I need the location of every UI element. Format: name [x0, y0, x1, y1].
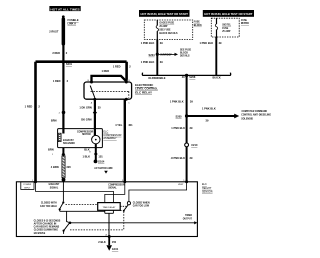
internal wire switch1 to timer leg: [60, 210, 105, 212]
wire BLK 151 motor to ground: [83, 144, 104, 160]
svg-text:GAGES FUSE: GAGES FUSE: [159, 22, 174, 25]
svg-text:1 RED: 1 RED: [113, 65, 121, 69]
fuse box 2 SIG/TEL FUSE: [211, 18, 239, 37]
label ELC compressor assembly: [103, 131, 121, 141]
fuse box 1 GAGES FUSE: [144, 20, 192, 39]
svg-text:3: 3: [122, 180, 123, 182]
svg-text:ACTUATOR ARM: ACTUATOR ARM: [94, 167, 112, 170]
svg-text:HOT IN RUN, BULB TEST OR START: HOT IN RUN, BULB TEST OR START: [141, 12, 189, 16]
svg-text:25 AMP: 25 AMP: [222, 30, 231, 33]
svg-text:ASSEMBLY: ASSEMBLY: [103, 137, 117, 140]
svg-text:OUTPUT: OUTPUT: [183, 219, 193, 221]
svg-text:SUNROOF: SUNROOF: [160, 55, 172, 57]
svg-text:CLOSED ELIMINATING: CLOSED ELIMINATING: [34, 229, 59, 232]
wire 1 RED 2 to relay pin D: [113, 62, 131, 82]
svg-text:BLOCK DETAILS: BLOCK DETAILS: [159, 32, 178, 35]
svg-text:1 RED: 1 RED: [25, 105, 33, 109]
svg-text:COMPRESSOR: COMPRESSOR: [77, 131, 94, 133]
fusible link A: [49, 15, 79, 45]
svg-text:1 RED: 1 RED: [53, 79, 61, 83]
terminal circle on sensor: [62, 178, 66, 182]
svg-text:FUSE: FUSE: [241, 20, 248, 22]
svg-text:SIGNAL: SIGNAL: [50, 186, 59, 189]
wire 1 DK GRN 35 relay A to motor: [79, 99, 101, 135]
svg-text:G104: G104: [98, 160, 105, 164]
svg-text:1 DK GRN: 1 DK GRN: [79, 106, 92, 110]
svg-text:SEE FUSE: SEE FUSE: [180, 50, 192, 52]
svg-text:401: 401: [128, 123, 133, 127]
internal wire exhaust terminal to switch 1: [62, 182, 64, 202]
label closed when car too low: [133, 202, 150, 207]
wire BRN 1 below compressor: [48, 148, 65, 157]
timer box time delay: [98, 203, 121, 211]
svg-text:AFTER CHANGE IN: AFTER CHANGE IN: [34, 222, 57, 225]
svg-text:SIG/TEL: SIG/TEL: [222, 25, 231, 27]
svg-text:EXHAUST: EXHAUST: [63, 139, 74, 142]
label electronic level control relay: [135, 83, 158, 94]
svg-text:20 AMP: 20 AMP: [159, 25, 168, 28]
svg-text:HEIGHT: HEIGHT: [202, 187, 212, 190]
svg-text:SOLENOID: SOLENOID: [241, 118, 253, 120]
ground pin A and wire 2 BLK 150: [98, 234, 116, 246]
svg-text:G101: G101: [112, 247, 119, 251]
wire 1 PNK BLK 39 from sig/tel fuse: [199, 37, 222, 75]
dashed links timer to switch 3: [120, 206, 126, 210]
internal rail vent pin to switch: [129, 182, 187, 202]
compressor assembly box: [58, 129, 103, 148]
svg-text:S204: S204: [149, 53, 156, 57]
svg-text:LINK A: LINK A: [68, 22, 77, 26]
svg-text:ELC: ELC: [202, 183, 207, 186]
svg-text:CLOSES 8-15 SECONDS: CLOSES 8-15 SECONDS: [34, 220, 61, 222]
svg-text:EXHAUST: EXHAUST: [49, 183, 60, 186]
op relay U1 electronic level control relay box: [84, 80, 132, 104]
label actuator arm: [94, 167, 112, 174]
wire 1 RED 2 below S201: [53, 62, 69, 112]
node S201: [62, 60, 73, 66]
svg-text:CLOSED WITH: CLOSED WITH: [41, 203, 57, 205]
svg-text:CONTROL ANTI-DIESELING: CONTROL ANTI-DIESELING: [241, 114, 271, 117]
svg-text:S205: S205: [176, 114, 183, 118]
exhaust solenoid coil: [58, 133, 75, 145]
wire 1 RED relay jumper B to D: [92, 69, 127, 82]
svg-text:1 PNK BLK: 1 PNK BLK: [170, 99, 184, 103]
svg-text:POWER: POWER: [23, 184, 31, 186]
svg-text:2 RED: 2 RED: [52, 51, 60, 55]
height sensor box: [16, 180, 197, 237]
svg-text:ELECTRONIC: ELECTRONIC: [135, 83, 153, 87]
svg-text:SEE FUSE: SEE FUSE: [159, 30, 171, 32]
svg-text:1 PNK BLK: 1 PNK BLK: [202, 107, 216, 111]
model split bus: [142, 73, 230, 81]
label closed with car too high: [40, 203, 57, 208]
svg-text:CLOSED WHEN: CLOSED WHEN: [133, 202, 150, 204]
svg-text:CAR TOO LOW: CAR TOO LOW: [133, 205, 150, 208]
svg-text:EXCESSIVE: EXCESSIVE: [34, 233, 46, 235]
svg-text:HOT IN RUN, BULB TEST OR START: HOT IN RUN, BULB TEST OR START: [204, 12, 252, 16]
power input compartment: [21, 182, 34, 190]
wire label .8 PNK BLK 39 low: [171, 156, 193, 160]
connector on red/brn wire: [59, 111, 66, 115]
wire 1 PNK 39 from gages fuse: [141, 39, 164, 75]
svg-text:151: 151: [98, 154, 103, 158]
svg-text:VENT: VENT: [178, 184, 184, 186]
svg-text:1 BLK: 1 BLK: [83, 154, 91, 158]
connector C210: [185, 143, 198, 147]
svg-text:BRN: BRN: [51, 118, 57, 122]
svg-text:1 RED: 1 RED: [102, 69, 110, 73]
svg-text:BLOCK: BLOCK: [241, 23, 249, 25]
svg-text:DK GRN: DK GRN: [81, 118, 91, 122]
svg-text:BUICK: BUICK: [213, 75, 221, 79]
switch 1 closed with car too high: [59, 201, 65, 211]
svg-text:FUSIBLE: FUSIBLE: [68, 18, 79, 22]
svg-text:CAR HEIGHT. REMAINS: CAR HEIGHT. REMAINS: [34, 226, 60, 229]
svg-text:MOTOR: MOTOR: [82, 134, 91, 136]
svg-text:COMPUTER COMMAND: COMPUTER COMMAND: [242, 110, 268, 113]
svg-text:4 YEL: 4 YEL: [115, 123, 123, 127]
svg-text:1 PNK BLK: 1 PNK BLK: [141, 41, 155, 45]
svg-text:LEVEL CONTROL: LEVEL CONTROL: [135, 87, 158, 91]
internal rail compressor signal to timer: [105, 182, 125, 203]
label closes 8-15 seconds block: [34, 220, 61, 235]
motor M symbol: [92, 135, 100, 143]
timer output line to edge: [70, 221, 197, 224]
svg-text:FUSE: FUSE: [222, 28, 229, 30]
svg-text:1 PNK BLK: 1 PNK BLK: [199, 41, 213, 45]
internal rail power to timer: [36, 182, 114, 203]
switch 2 time delay contact: [63, 211, 72, 234]
svg-text:150: 150: [112, 240, 117, 244]
label timer output: [183, 215, 193, 220]
svg-text:C210: C210: [191, 143, 198, 147]
wire fusible link to S201 (2 RED): [52, 45, 67, 62]
air line coil to height sensor: [51, 156, 71, 178]
dashed link switch2 to ground drop: [70, 229, 124, 231]
node S205: [176, 114, 189, 118]
svg-text:5: 5: [183, 180, 184, 182]
wire bus 1 RED horizontal: [36, 60, 127, 63]
svg-text:.8 PNK BLK: .8 PNK BLK: [171, 156, 186, 160]
svg-text:SIGNAL: SIGNAL: [108, 187, 117, 190]
svg-text:BRN: BRN: [48, 148, 54, 152]
svg-text:S208: S208: [189, 75, 196, 79]
svg-text:BLOCK: BLOCK: [180, 53, 188, 55]
switch 3 closed when car too low: [123, 202, 131, 212]
wire label 1 PNK BLK 39 mid: [171, 126, 193, 130]
svg-text:DETAILS: DETAILS: [180, 54, 190, 57]
svg-text:TIME DELAY: TIME DELAY: [102, 206, 115, 209]
svg-text:COMPRESSOR: COMPRESSOR: [108, 184, 125, 186]
power label HOT IN RUN BULB TEST OR START (left): [139, 10, 190, 17]
wire 4 YEL 401 relay C to sensor: [115, 99, 133, 182]
label computer command control solenoid: [241, 110, 271, 120]
node S204 sunroof tap: [149, 53, 178, 57]
svg-text:SENSOR: SENSOR: [202, 191, 213, 194]
wire 1 PNK BLK 39 main right column: [170, 75, 193, 181]
node S208: [182, 74, 196, 79]
svg-text:BLOCK: BLOCK: [194, 25, 202, 27]
power label HOT AT ALL TIMES: [49, 6, 80, 11]
svg-text:2 RUST: 2 RUST: [49, 30, 59, 34]
svg-text:TIMER: TIMER: [185, 215, 192, 217]
svg-text:HOT AT ALL TIMES: HOT AT ALL TIMES: [50, 7, 80, 11]
wire 1 PNK BLK 39 below S204: [141, 60, 164, 64]
svg-text:OLDSMOBILE: OLDSMOBILE: [148, 76, 166, 80]
label see fuse block details: [180, 50, 192, 58]
wire branch to anti-dieseling solenoid: [187, 107, 240, 123]
svg-text:320: 320: [66, 165, 71, 169]
label ELC height sensor: [202, 183, 213, 193]
svg-text:2 BLK: 2 BLK: [98, 240, 106, 244]
label fuse block 1: [194, 22, 202, 27]
timer output legs: [105, 210, 114, 236]
power label HOT IN RUN BULB TEST OR START (right): [203, 10, 254, 17]
svg-text:FUSE: FUSE: [194, 22, 201, 24]
wire 1 RED 2 left drop to power input: [25, 62, 41, 182]
label exhaust signal: [49, 183, 60, 189]
svg-text:4 BRN: 4 BRN: [51, 165, 59, 169]
ground G104: [94, 160, 105, 164]
label fuse block 2: [241, 20, 249, 25]
svg-text:ELC RELAY: ELC RELAY: [135, 90, 152, 94]
svg-text:INPUT: INPUT: [24, 187, 31, 189]
wire BRN to compressor: [51, 113, 64, 133]
ground G101: [106, 245, 118, 251]
svg-text:SOLENOID: SOLENOID: [63, 143, 75, 145]
label compressor signal: [108, 184, 125, 189]
svg-text:CAR TOO HIGH: CAR TOO HIGH: [40, 205, 57, 208]
svg-text:1 PNK BLK: 1 PNK BLK: [141, 60, 155, 64]
svg-text:1 PNK BLK: 1 PNK BLK: [171, 126, 185, 130]
dashed link switch1 to timer: [66, 204, 98, 206]
